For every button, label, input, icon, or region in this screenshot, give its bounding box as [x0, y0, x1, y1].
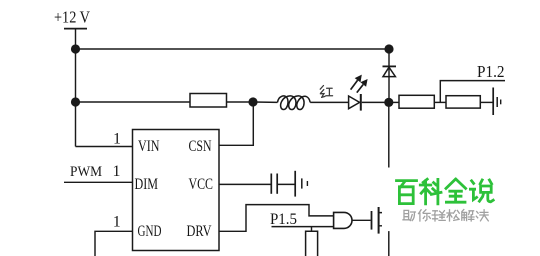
wire: GND pin left and down: [95, 231, 133, 256]
svg-text:VCC: VCC: [189, 176, 214, 193]
LED D1 triangle: [349, 96, 360, 109]
resistor R2: [399, 95, 434, 108]
AND gate U2: [334, 212, 352, 228]
wire: stub to resistor R4: [311, 227, 313, 232]
char ni: [419, 210, 431, 221]
svg-text:P1.5: P1.5: [270, 211, 297, 228]
wire: mid rail to resistor R1: [76, 101, 191, 103]
capacitor C1 plate 2: [276, 174, 278, 194]
ground (rotated) at P1.2 divider: [492, 88, 494, 116]
wire: R1 to CSN node: [227, 101, 254, 103]
char bai: [397, 181, 417, 204]
wire: diode vertical (rail to LED node): [388, 49, 390, 102]
svg-text:VIN: VIN: [138, 138, 160, 155]
svg-text:+12 V: +12 V: [54, 7, 90, 26]
transistor Q1 gate bar: [371, 211, 373, 230]
wire: CSN node to inductor: [253, 101, 278, 103]
wire: inductor to LED: [310, 101, 348, 103]
wire: VCC pin to capacitor: [219, 183, 271, 185]
LED D1 light arrow 1: [351, 80, 358, 89]
wire: P1.2 riser: [440, 81, 505, 103]
transistor Q1 drain path (to LED node): [379, 102, 389, 212]
node: top-right junction: [384, 44, 393, 53]
char zhu: [403, 210, 415, 220]
char shuo: [470, 180, 493, 202]
char song: [447, 210, 459, 221]
watermark logo text: bai ke quan shuo (green): [397, 179, 494, 204]
node: top-left junction: [71, 44, 80, 53]
watermark background box: [382, 168, 540, 232]
diode D2 cathode bar: [383, 65, 397, 67]
wire: P1.5 stub to AND gate input B: [272, 226, 334, 228]
wire: R3 to ground: [480, 101, 492, 103]
capacitor C1 plate 1: [270, 174, 272, 194]
char ke: [420, 179, 441, 204]
diode D2 triangle: [383, 67, 395, 76]
svg-text:DIM: DIM: [135, 176, 159, 193]
wire: LED to node: [362, 101, 389, 103]
op-amp/controller IC U1 box: [133, 130, 220, 251]
svg-text:1: 1: [113, 163, 121, 180]
svg-text:1: 1: [113, 131, 121, 148]
svg-text:PWM: PWM: [70, 164, 102, 180]
svg-text:1: 1: [113, 214, 121, 231]
resistor R3: [446, 96, 480, 108]
svg-text:CSN: CSN: [189, 138, 212, 155]
svg-text:DRV: DRV: [187, 223, 213, 240]
wire: CSN pin up to mid rail: [219, 102, 253, 145]
node: CSN junction: [248, 97, 257, 106]
resistor R1: [190, 94, 227, 108]
wire: R2 to R3: [434, 101, 446, 103]
transistor Q1 source path (down off page): [379, 226, 389, 256]
transistor Q1 channel bar: [378, 207, 380, 234]
svg-text:P1.2: P1.2: [477, 62, 505, 81]
node: LED junction: [384, 98, 393, 107]
wire: PWM stub to DIM pin: [64, 181, 133, 183]
wire: +12V vertical down to VIN branch: [75, 29, 77, 147]
watermark slogan text: zhu ni qing song jie jue (gray): [403, 210, 488, 221]
node: mid-left junction: [71, 97, 80, 106]
char quan: [446, 179, 466, 202]
char jue: [476, 210, 488, 221]
LED D1 cathode bar: [360, 94, 362, 111]
wire: DRV pin over to AND gate input A: [219, 205, 334, 232]
wire: VIN pin to +12V vertical: [76, 146, 133, 148]
wire: top rail: [76, 48, 390, 50]
inductor L1: [278, 96, 311, 110]
wire: capacitor to ground: [278, 183, 295, 185]
+12V terminal bar: [64, 28, 87, 30]
resistor R4 (vertical, runs off bottom): [306, 231, 318, 256]
char jie: [462, 210, 474, 221]
ground (rotated) at VCC capacitor: [294, 171, 296, 197]
svg-text:GND: GND: [138, 223, 162, 240]
wire: AND gate output to Q1 gate: [352, 219, 371, 221]
LED D1 light arrow 2: [357, 85, 363, 93]
wire: node to resistor R2: [389, 101, 399, 103]
char qing: [432, 211, 445, 221]
label red (hong): [320, 86, 332, 98]
